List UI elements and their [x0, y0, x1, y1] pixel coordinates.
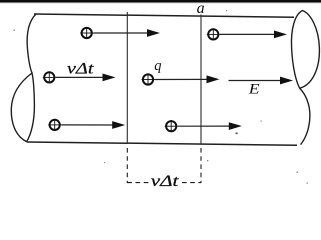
label v-delta-t upper: [67, 60, 95, 77]
scan speckles: [14, 10, 308, 184]
charge 5 bottom-left: [48, 119, 61, 131]
label E: [248, 82, 260, 97]
charge 3 mid-left: [43, 71, 56, 83]
svg-text:vΔt: vΔt: [67, 60, 95, 77]
section line 2: [200, 15, 202, 145]
charge 1 top-left: [80, 27, 93, 39]
arrow from charge 3: [56, 74, 116, 82]
left break curve: [27, 14, 36, 73]
right break curve: [300, 88, 310, 144]
dashed bottom segment left: [127, 182, 149, 184]
svg-text:vΔt: vΔt: [151, 173, 180, 190]
charge 2 top-right: [207, 28, 220, 40]
wire bottom edge: [27, 142, 297, 145]
svg-text:E: E: [248, 82, 260, 97]
arrow from charge 2: [220, 31, 287, 39]
left end cap ellipse: [11, 73, 34, 142]
charge q center: [142, 73, 155, 85]
svg-text:q: q: [154, 58, 161, 74]
wire top edge: [34, 14, 294, 17]
arrow from charge 5: [61, 121, 125, 129]
dashed drop line left: [126, 148, 128, 183]
svg-text:a: a: [197, 0, 205, 17]
dashed bottom segment right: [182, 182, 202, 184]
top black border bar: [0, 0, 321, 2]
section line 1: [126, 12, 128, 144]
arrow from charge q: [155, 75, 220, 83]
charge 6 bottom-center: [165, 120, 178, 132]
arrow from charge 6: [178, 122, 242, 130]
right end cap ellipse: [291, 11, 319, 89]
label v-delta-t lower: [151, 173, 180, 190]
arrow from charge 1: [93, 29, 160, 37]
dashed drop line right: [200, 148, 202, 183]
arrow E field: [229, 77, 294, 85]
